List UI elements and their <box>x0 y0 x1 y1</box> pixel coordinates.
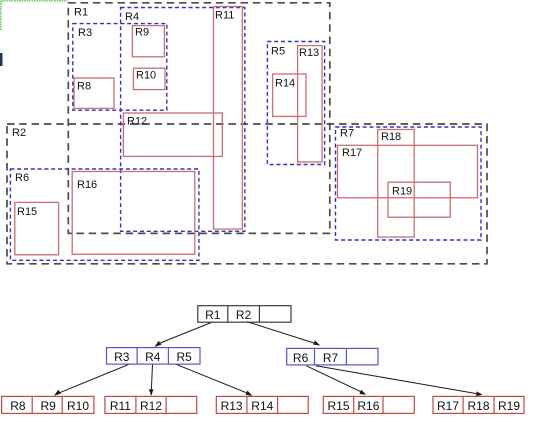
svg-text:R1: R1 <box>205 308 221 322</box>
svg-text:R10: R10 <box>67 399 89 413</box>
rectangle R13 <box>298 46 322 162</box>
tree leaf [R15|R16| ] <box>323 396 414 413</box>
svg-text:R19: R19 <box>392 186 412 198</box>
svg-text:R13: R13 <box>221 399 243 413</box>
tree edge root R2 to node R6R7 <box>247 322 317 344</box>
svg-text:R14: R14 <box>275 78 295 90</box>
rectangle R19 <box>388 182 450 217</box>
tree edge R5 to leaf R13R14 <box>176 364 249 394</box>
svg-text:R5: R5 <box>271 46 285 58</box>
svg-text:R4: R4 <box>145 350 161 364</box>
rectangle R1 <box>68 3 330 234</box>
svg-text:R3: R3 <box>78 27 92 39</box>
rectangle R9 <box>132 26 164 57</box>
svg-text:R16: R16 <box>357 399 379 413</box>
svg-text:R14: R14 <box>251 399 273 413</box>
tree edge R7 to leaf R17R18R19 <box>316 366 479 394</box>
svg-text:R11: R11 <box>215 10 234 22</box>
svg-text:R9: R9 <box>135 27 149 39</box>
rectangle R17 <box>338 145 478 198</box>
svg-text:R9: R9 <box>41 399 57 413</box>
svg-text:R18: R18 <box>467 399 489 413</box>
svg-text:R12: R12 <box>127 116 147 128</box>
rectangle R14 <box>273 74 306 116</box>
svg-text:R1: R1 <box>74 6 88 18</box>
svg-text:R15: R15 <box>327 399 349 413</box>
svg-text:R6: R6 <box>15 172 29 184</box>
svg-text:R17: R17 <box>342 147 362 159</box>
tree leaf [R11|R12| ] <box>105 396 197 413</box>
svg-text:R10: R10 <box>136 70 156 82</box>
svg-text:R8: R8 <box>10 399 26 413</box>
tree edge root R1 to node R3R4R5 <box>157 323 212 345</box>
svg-text:R3: R3 <box>114 350 130 364</box>
rectangle R5 <box>267 42 324 165</box>
svg-text:R15: R15 <box>17 206 37 218</box>
svg-text:R12: R12 <box>140 399 162 413</box>
tree root node [R1|R2| ] <box>198 306 291 323</box>
rectangle R16 <box>72 172 195 255</box>
svg-text:R18: R18 <box>381 131 401 143</box>
rectangle R15 <box>15 202 59 254</box>
svg-text:R2: R2 <box>12 127 26 139</box>
rectangle R4 <box>121 8 245 232</box>
svg-text:R4: R4 <box>125 11 139 23</box>
rectangle R2 <box>7 124 487 264</box>
tree leaf [R8|R9|R10] <box>2 396 94 413</box>
tree node [R6|R7| ] <box>287 348 378 365</box>
svg-text:R5: R5 <box>177 350 193 364</box>
svg-text:R2: R2 <box>236 308 252 322</box>
tree edge R4 to leaf R11R12 <box>151 364 152 391</box>
tree leaf [R17|R18|R19] <box>433 396 524 413</box>
rectangle R3 <box>73 24 167 111</box>
rectangle R10 <box>133 68 165 89</box>
svg-text:R6: R6 <box>293 351 309 365</box>
svg-text:R17: R17 <box>437 399 459 413</box>
rectangle R6 <box>10 169 199 260</box>
tree leaf [R13|R14| ] <box>216 396 308 413</box>
rectangle R7 <box>336 127 482 240</box>
svg-text:R7: R7 <box>323 351 339 365</box>
rectangle R18 <box>378 130 415 238</box>
tree edge R3 to leaf R8R9R10 <box>57 364 129 394</box>
svg-text:R8: R8 <box>77 81 91 93</box>
svg-text:R16: R16 <box>77 179 97 191</box>
green window-edge artifact <box>1 1 68 30</box>
tree edge R6 to leaf R15R16 <box>306 366 362 393</box>
svg-text:R19: R19 <box>498 399 520 413</box>
svg-text:R11: R11 <box>110 399 131 413</box>
rectangle R11 <box>214 7 243 230</box>
rectangle R12 <box>123 113 222 156</box>
navy window-edge artifact <box>0 53 3 66</box>
svg-text:R7: R7 <box>340 128 354 140</box>
tree node [R3|R4|R5] <box>107 348 201 365</box>
svg-text:R13: R13 <box>299 47 319 59</box>
rectangle R8 <box>74 78 114 108</box>
